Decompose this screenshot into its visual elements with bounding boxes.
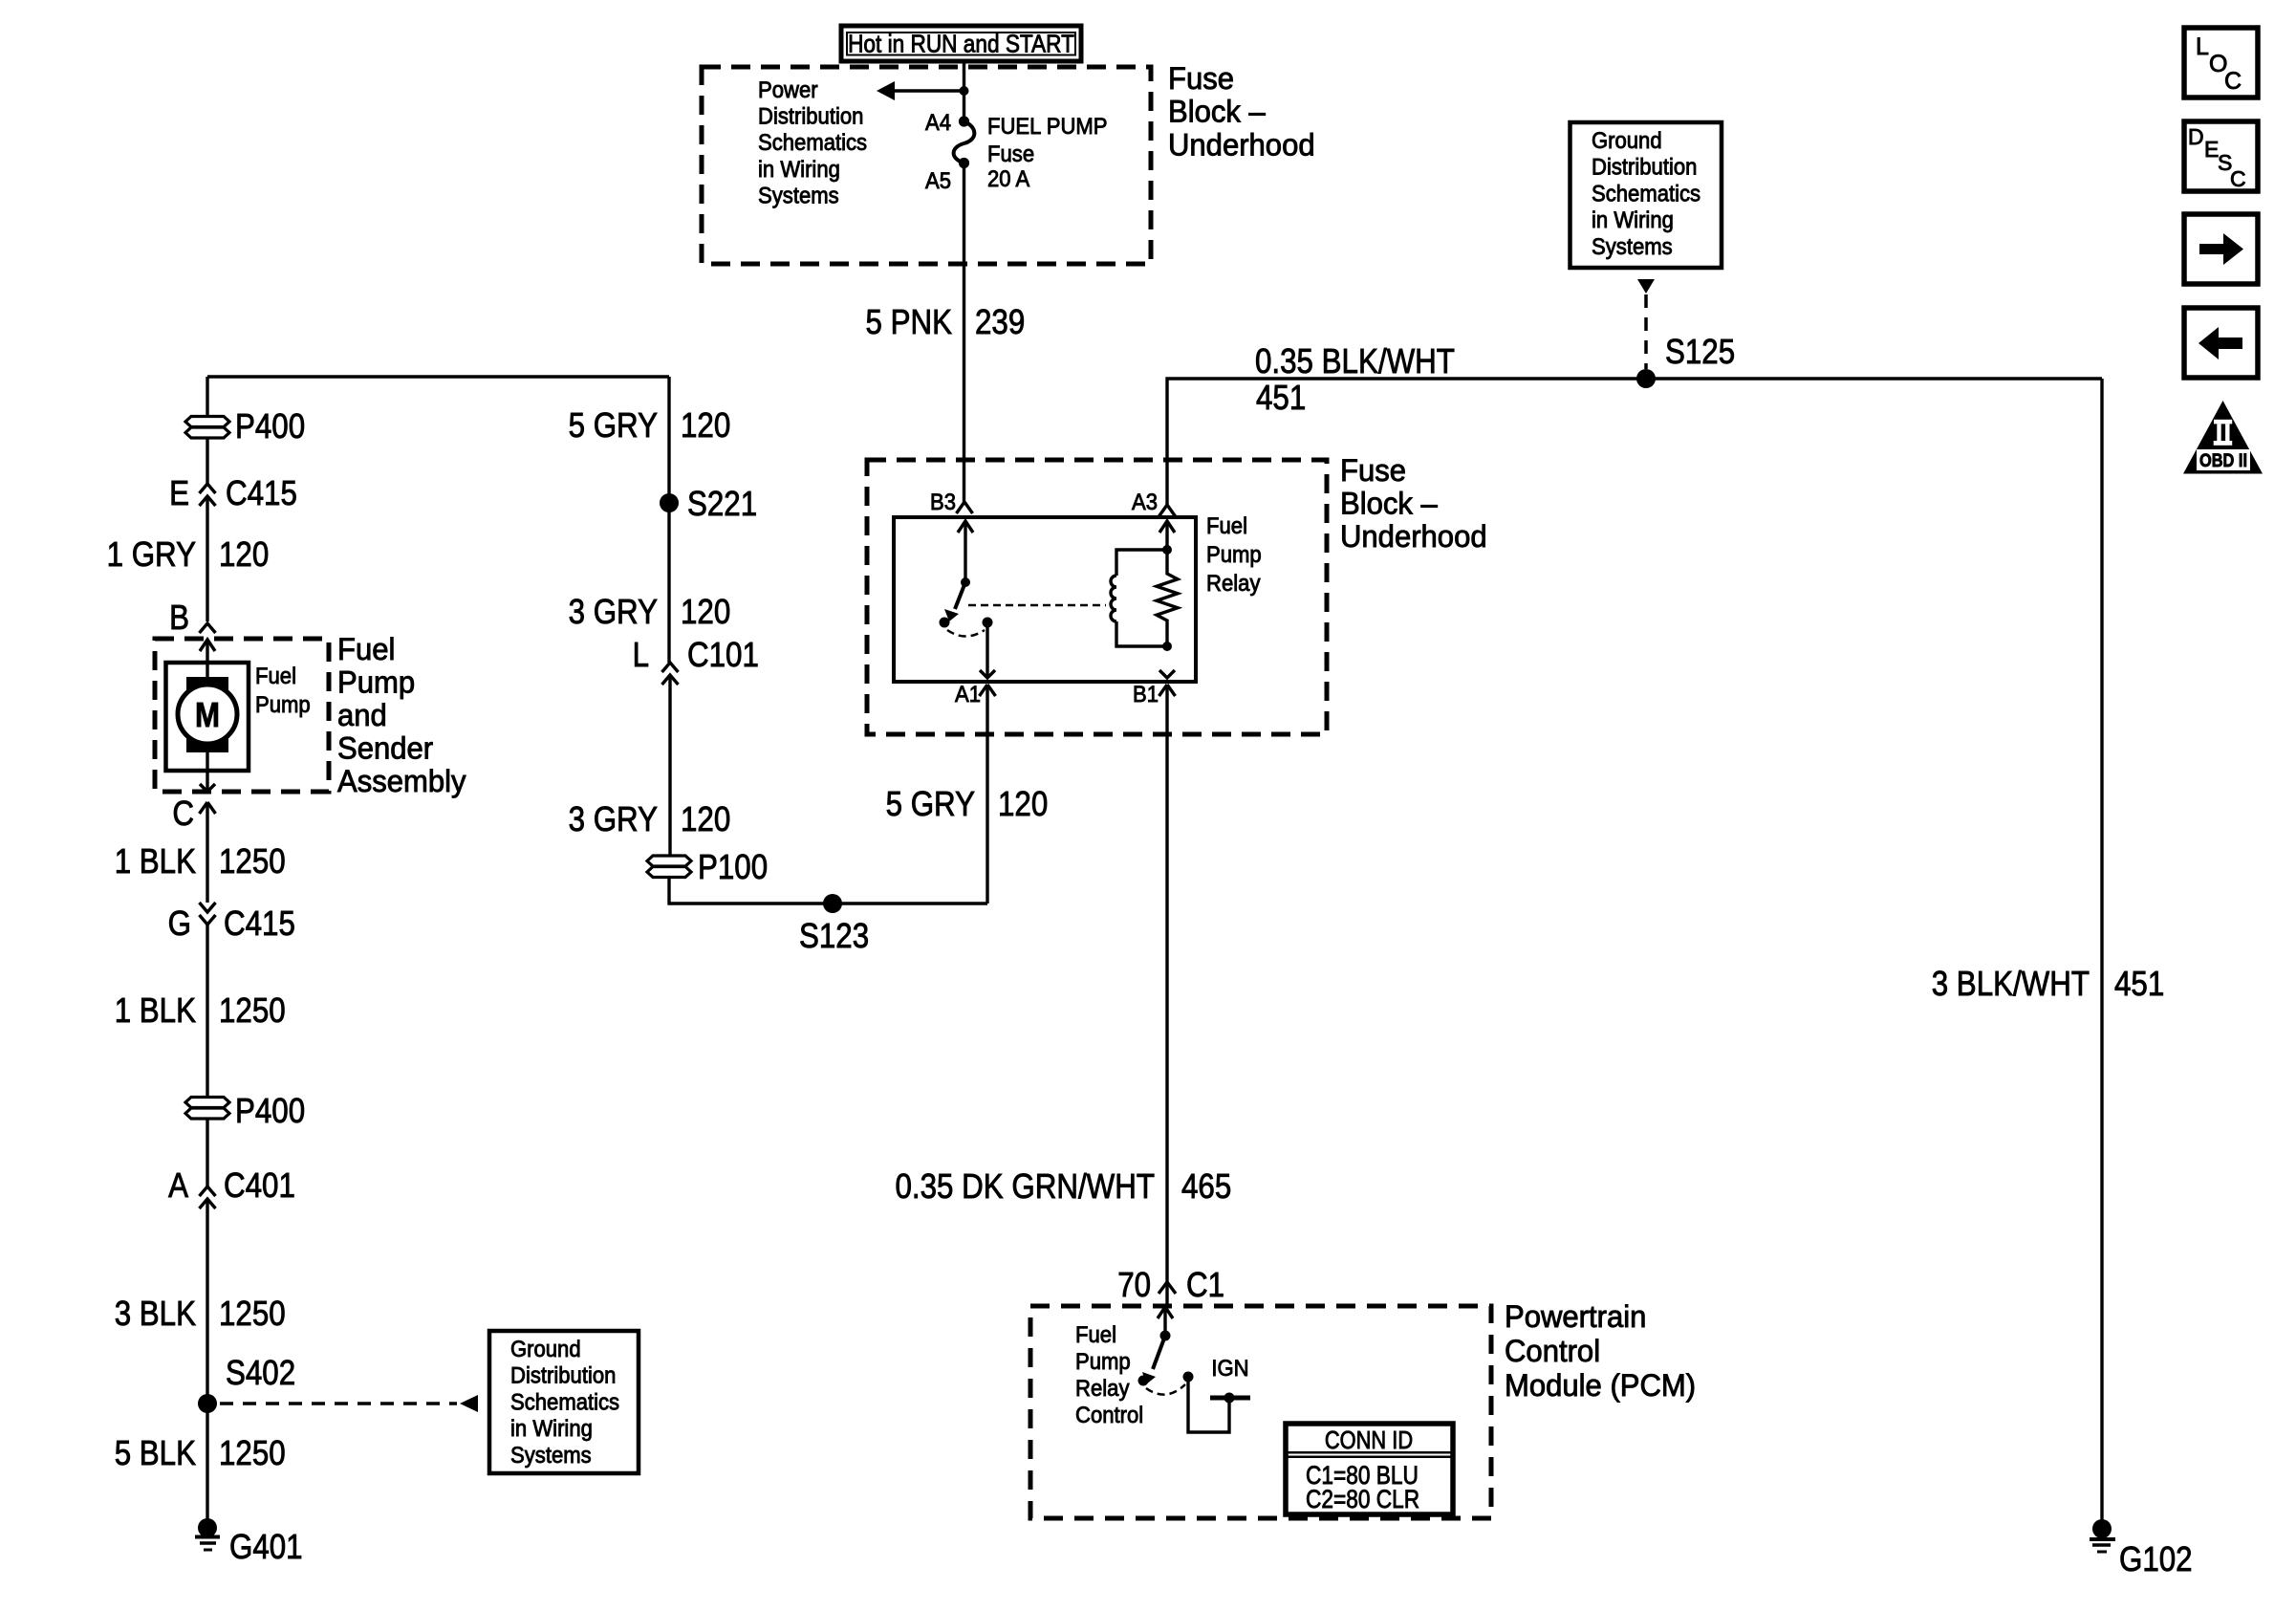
- svg-text:Ground: Ground: [510, 1337, 581, 1362]
- label Fuel Pump and Sender Assembly: [337, 632, 466, 798]
- pin A1 connector: [980, 685, 996, 696]
- power source label box "Hot in RUN and START": [841, 26, 1081, 61]
- svg-text:A: A: [168, 1165, 188, 1205]
- grommet P400 lower: [185, 1091, 305, 1130]
- svg-text:Block –: Block –: [1168, 95, 1266, 129]
- wire: top-left horizontal run: [207, 375, 669, 378]
- dashed pointer to ground note: [220, 1402, 457, 1405]
- right arrow icon box: [2184, 214, 2258, 284]
- svg-text:C415: C415: [224, 903, 295, 943]
- svg-text:Pump: Pump: [1206, 542, 1262, 568]
- svg-text:FUEL PUMP: FUEL PUMP: [987, 114, 1108, 140]
- PCM driver pivot: [1160, 1331, 1171, 1341]
- svg-text:Systems: Systems: [1592, 234, 1673, 260]
- svg-text:P400: P400: [235, 406, 305, 446]
- relay: fuse block underhood dashed box: [867, 460, 1327, 734]
- svg-text:in Wiring: in Wiring: [758, 157, 840, 183]
- relay resistor: [1157, 550, 1178, 646]
- relay switch output to A1: [986, 622, 988, 678]
- splice S125: [1636, 369, 1656, 388]
- svg-text:Systems: Systems: [510, 1443, 592, 1469]
- grommet P100: [647, 847, 768, 886]
- svg-text:1250: 1250: [219, 1433, 286, 1472]
- note: Power Distribution Schematics in Wiring Systems: [758, 77, 867, 208]
- svg-text:3 BLK/WHT: 3 BLK/WHT: [1932, 964, 2090, 1003]
- fuse terminal A4: [959, 116, 969, 126]
- svg-text:C2=80 CLR: C2=80 CLR: [1306, 1485, 1419, 1513]
- OBD II icon triangle: [2183, 401, 2263, 474]
- ground G401: [198, 1518, 217, 1537]
- svg-text:3 GRY: 3 GRY: [569, 799, 658, 838]
- svg-text:239: 239: [975, 302, 1025, 341]
- svg-text:and: and: [337, 698, 387, 732]
- label: Fuse Block - Underhood (top): [1168, 61, 1315, 162]
- svg-text:A5: A5: [925, 168, 951, 194]
- svg-text:L: L: [2196, 33, 2209, 60]
- svg-text:451: 451: [1256, 378, 1306, 417]
- svg-text:120: 120: [998, 784, 1048, 823]
- svg-text:1250: 1250: [219, 841, 286, 881]
- svg-text:Fuel: Fuel: [337, 632, 395, 666]
- PCM throw dashed arc: [1146, 1384, 1185, 1395]
- svg-text:A4: A4: [925, 110, 951, 136]
- svg-text:Fuse: Fuse: [987, 142, 1034, 167]
- svg-text:P100: P100: [698, 847, 768, 886]
- PCM dashed box: [1030, 1306, 1491, 1518]
- wire: feed from Hot box down to fuse terminal A4: [963, 61, 965, 121]
- svg-text:Underhood: Underhood: [1168, 127, 1315, 162]
- relay switch blade: [955, 582, 965, 609]
- svg-text:P400: P400: [235, 1091, 305, 1130]
- wire: 3 BLK/WHT 451 down right side: [2100, 379, 2103, 1520]
- svg-text:Distribution: Distribution: [1592, 155, 1697, 181]
- svg-text:3 BLK: 3 BLK: [115, 1294, 196, 1333]
- svg-text:OBD II: OBD II: [2199, 451, 2247, 471]
- svg-text:IGN: IGN: [1211, 1356, 1248, 1382]
- IGN internal supply: [1188, 1377, 1229, 1432]
- svg-text:1 GRY: 1 GRY: [107, 534, 196, 574]
- svg-text:Fuel: Fuel: [1206, 513, 1247, 539]
- svg-text:Schematics: Schematics: [758, 130, 867, 156]
- connector C1 pin 70: [1159, 1282, 1176, 1294]
- label Fuel Pump Relay Control: [1075, 1322, 1143, 1428]
- wire: 0.35 DK GRN/WHT 465 from B1 to PCM: [1165, 686, 1168, 1282]
- fuel pump relay inner box: [894, 517, 1196, 682]
- svg-text:A3: A3: [1132, 490, 1158, 515]
- svg-text:5 PNK: 5 PNK: [866, 302, 953, 341]
- svg-text:D: D: [2188, 124, 2204, 149]
- svg-text:Schematics: Schematics: [1592, 181, 1700, 207]
- relay coil output arrow to B1: [1159, 670, 1175, 678]
- wire: 5 GRY 120 vertical: [667, 377, 670, 663]
- svg-text:Relay: Relay: [1206, 571, 1261, 597]
- grommet P400 upper: [185, 406, 305, 446]
- label Fuel Pump Relay: [1206, 513, 1262, 597]
- svg-text:Block –: Block –: [1340, 487, 1438, 521]
- svg-text:120: 120: [681, 405, 730, 445]
- wire arrow to power distribution schematics (left): [892, 89, 964, 92]
- svg-text:Fuse: Fuse: [1340, 453, 1406, 488]
- splice S123: [823, 894, 842, 913]
- PCM driver switch blade: [1153, 1336, 1165, 1369]
- wire: motor to pin C with arrow: [206, 752, 208, 792]
- svg-text:120: 120: [219, 534, 269, 574]
- svg-text:Distribution: Distribution: [510, 1363, 616, 1389]
- svg-text:C101: C101: [687, 635, 759, 674]
- junction node in fuse block: [960, 86, 969, 96]
- svg-text:C415: C415: [226, 473, 297, 512]
- svg-text:Control: Control: [1075, 1403, 1143, 1428]
- LOC icon box: [2184, 28, 2258, 98]
- PCM driver input arrow: [1158, 1307, 1173, 1318]
- svg-text:465: 465: [1181, 1166, 1231, 1206]
- svg-text:5 GRY: 5 GRY: [569, 405, 658, 445]
- svg-text:Hot in RUN and START: Hot in RUN and START: [848, 30, 1074, 58]
- svg-text:G: G: [168, 903, 191, 943]
- svg-text:C401: C401: [224, 1165, 295, 1205]
- svg-text:Power: Power: [758, 77, 818, 103]
- left arrow icon box: [2184, 308, 2258, 378]
- svg-text:Fuel: Fuel: [255, 664, 296, 689]
- fuse element FUEL PUMP Fuse 20 A: [954, 121, 975, 163]
- svg-text:Pump: Pump: [255, 692, 311, 718]
- label Fuse Block - Underhood (relay): [1340, 453, 1487, 554]
- svg-text:Ground: Ground: [1592, 128, 1662, 154]
- svg-text:1 BLK: 1 BLK: [115, 991, 196, 1030]
- relay actuation dashed link: [968, 604, 1106, 607]
- svg-text:5 GRY: 5 GRY: [886, 784, 975, 823]
- svg-text:5 BLK: 5 BLK: [115, 1433, 196, 1472]
- svg-text:S123: S123: [799, 916, 869, 955]
- svg-text:0.35 BLK/WHT: 0.35 BLK/WHT: [1255, 341, 1455, 381]
- svg-text:B3: B3: [930, 490, 956, 515]
- CONN ID table: [1286, 1424, 1453, 1514]
- svg-text:Assembly: Assembly: [337, 764, 466, 798]
- svg-text:Relay: Relay: [1075, 1376, 1130, 1402]
- svg-text:C1: C1: [1186, 1265, 1224, 1304]
- svg-text:Pump: Pump: [1075, 1349, 1131, 1375]
- dashed pointer from ground note to S125: [1644, 294, 1648, 369]
- svg-text:Distribution: Distribution: [758, 104, 863, 130]
- pin B1 connector: [1159, 685, 1176, 696]
- svg-text:20 A: 20 A: [987, 166, 1029, 192]
- svg-text:G102: G102: [2119, 1539, 2193, 1578]
- relay coil: [1116, 550, 1167, 576]
- fuel pump and sender assembly dashed box: [155, 639, 329, 792]
- svg-text:B1: B1: [1133, 682, 1159, 708]
- svg-text:Systems: Systems: [758, 183, 839, 208]
- svg-text:1250: 1250: [219, 991, 286, 1030]
- svg-text:Pump: Pump: [337, 665, 415, 700]
- svg-text:S402: S402: [226, 1353, 295, 1392]
- relay switch contacts: [940, 618, 950, 628]
- fuel pump motor M: [178, 677, 237, 752]
- wire: A3 up to 0.35 BLK/WHT 451 horizontal run: [1167, 379, 2102, 505]
- relay switch pivot: [961, 577, 970, 587]
- connector pin C: [200, 802, 216, 814]
- svg-text:L: L: [633, 635, 649, 674]
- wire: 5 PNK 239 from fuse A5 down to relay B3: [963, 163, 965, 503]
- fuse value label: [987, 114, 1108, 192]
- DESC icon box: [2184, 121, 2258, 191]
- wire: A1 down to S123 run 5 GRY 120: [986, 685, 988, 903]
- svg-text:120: 120: [681, 592, 730, 631]
- wire: bottom run to S123: [669, 877, 987, 903]
- relay coil input arrow from A3: [1159, 521, 1175, 533]
- svg-text:E: E: [169, 473, 189, 512]
- fuse block underhood dashed box (top): [702, 67, 1151, 264]
- svg-text:S125: S125: [1665, 332, 1735, 371]
- fuse terminal A5: [959, 158, 969, 168]
- svg-text:S221: S221: [687, 484, 757, 523]
- svg-text:120: 120: [681, 799, 730, 838]
- svg-text:Sender: Sender: [337, 731, 433, 766]
- note box: Ground Distribution Schematics in Wiring Systems (bottom): [489, 1331, 639, 1473]
- svg-text:Underhood: Underhood: [1340, 519, 1487, 554]
- svg-text:Fuse: Fuse: [1168, 61, 1234, 96]
- svg-text:B: B: [169, 598, 189, 637]
- splice S402: [198, 1394, 217, 1413]
- svg-text:Powertrain: Powertrain: [1505, 1299, 1646, 1334]
- svg-text:Control: Control: [1505, 1334, 1600, 1368]
- fuel pump inner solid box: [166, 663, 249, 771]
- splice S221: [660, 493, 679, 512]
- svg-text:in Wiring: in Wiring: [1592, 207, 1674, 233]
- svg-text:C: C: [2224, 68, 2242, 95]
- svg-text:0.35 DK GRN/WHT: 0.35 DK GRN/WHT: [896, 1166, 1156, 1206]
- svg-text:70: 70: [1117, 1265, 1151, 1304]
- svg-text:Fuel: Fuel: [1075, 1322, 1116, 1348]
- svg-text:3 GRY: 3 GRY: [569, 592, 658, 631]
- coil top junction: [1162, 545, 1172, 555]
- switch throw dashed arc: [947, 630, 985, 637]
- wire: left vertical main: [206, 377, 208, 417]
- svg-text:M: M: [195, 695, 220, 734]
- relay switch input arrow from B3: [958, 521, 973, 533]
- svg-text:1250: 1250: [219, 1294, 286, 1333]
- svg-text:in Wiring: in Wiring: [510, 1416, 593, 1442]
- svg-text:Schematics: Schematics: [510, 1389, 619, 1415]
- svg-text:1 BLK: 1 BLK: [115, 841, 196, 881]
- svg-text:A1: A1: [955, 682, 981, 708]
- note box: Ground Distribution Schematics in Wiring Systems (top right): [1570, 122, 1722, 268]
- svg-text:C: C: [2230, 166, 2246, 191]
- PCM driver contacts: [1138, 1376, 1149, 1386]
- svg-text:451: 451: [2114, 964, 2164, 1003]
- ground G102: [2092, 1519, 2112, 1538]
- label Powertrain Control Module (PCM): [1505, 1299, 1696, 1403]
- svg-text:C: C: [172, 794, 194, 833]
- svg-text:CONN ID: CONN ID: [1325, 1426, 1413, 1454]
- svg-text:G401: G401: [229, 1527, 303, 1566]
- coil bottom junction: [1162, 642, 1172, 651]
- svg-text:Module (PCM): Module (PCM): [1505, 1368, 1696, 1403]
